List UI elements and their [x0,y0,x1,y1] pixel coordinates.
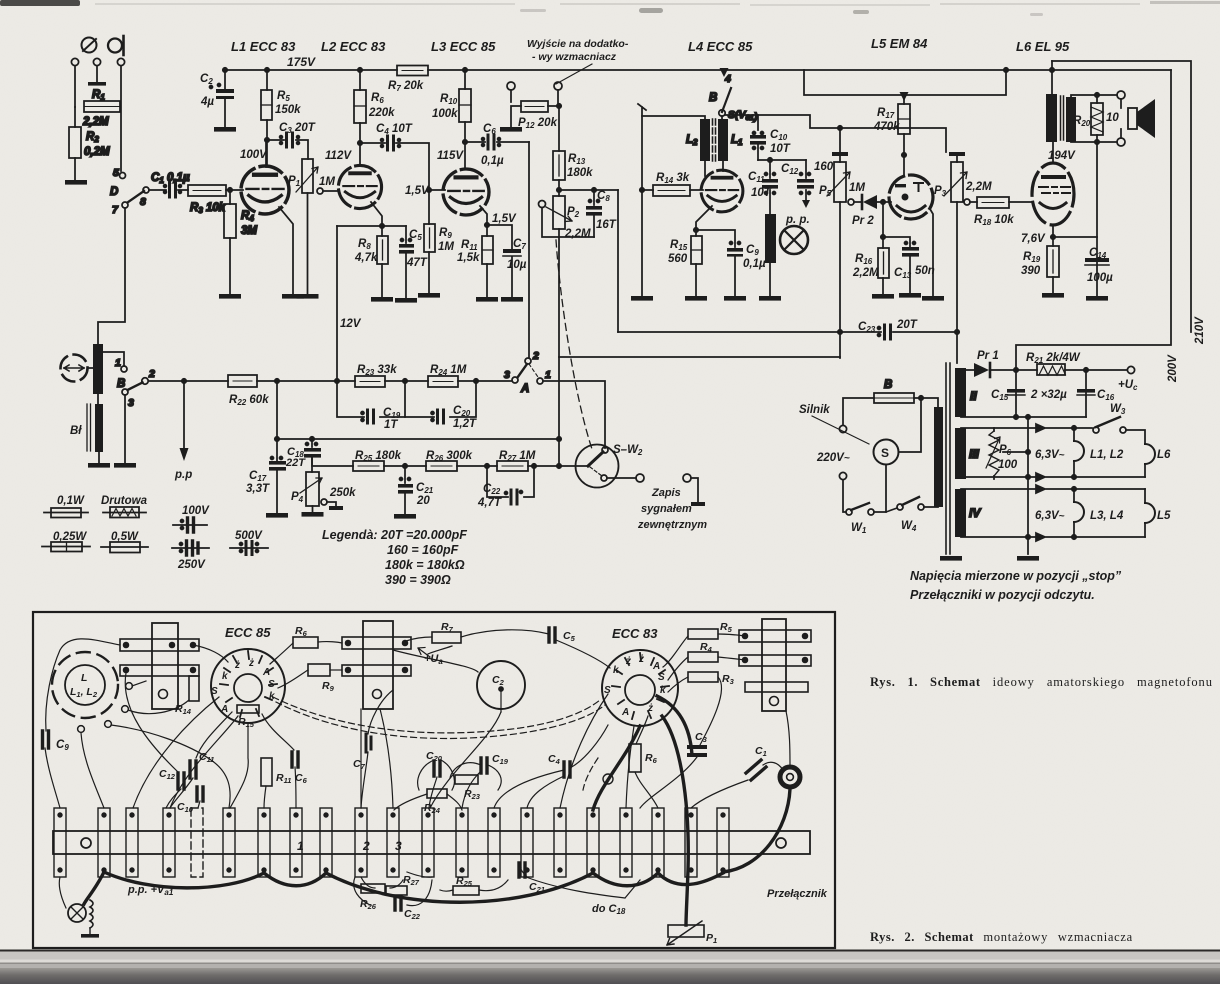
output transformer secondary [1066,97,1076,142]
Rys2 board frame [33,612,835,948]
node p.p tap [182,379,186,383]
wire contact8 to C1 [149,189,166,191]
resistor R24 (layout) [427,789,447,798]
svg-text:160 = 160pF: 160 = 160pF [387,543,459,557]
resistor R6 220k [358,68,362,72]
node L1 grid [228,188,232,192]
wire C7 top to socket [368,690,393,734]
svg-text:L3, L4: L3, L4 [1090,510,1124,522]
wire head circle to strip A lower [132,681,146,686]
svg-text:L6: L6 [1157,449,1171,461]
capacitor C18 22T [310,437,314,441]
wire R1 left to R2 [74,107,76,127]
potentiometer P2 2,2M [553,196,565,229]
ground line of head circuit [638,104,646,296]
output transformer core [1061,96,1064,140]
capacitor C4 (layout) [564,762,570,777]
switch A contact 2 [525,358,531,364]
tube socket ECC85 [211,649,285,723]
ground under R11 [476,297,498,302]
triode L1 [241,166,289,214]
wire L1 anode [265,140,267,167]
diode Pr1 [961,369,974,371]
ground under P4 [302,512,324,517]
svg-text:7,6V: 7,6V [1021,233,1046,245]
diode Pr2 [854,201,862,203]
svg-text:0,1W: 0,1W [57,495,85,507]
svg-text:ECC 85: ECC 85 [225,625,271,640]
terminal Zapis [636,474,644,482]
resistor R4 3M [229,192,231,204]
wire strip A lug to C12 [125,673,178,772]
svg-text:10: 10 [1106,112,1119,124]
resistor R14 (layout) [189,676,199,701]
svg-text:0,1µ: 0,1µ [481,155,504,167]
winding IV [955,489,966,537]
hum pot P6 100 [993,428,995,479]
heater return upper [961,473,1145,481]
svg-text:IV: IV [969,506,981,520]
tube socket ECC83 [602,650,678,726]
svg-text:ż: ż [234,660,240,671]
wire R24 to lug 393/428 [394,794,462,810]
svg-text:20: 20 [416,495,430,507]
Legenda text [322,528,467,587]
capacitor C22 (layout) [395,897,401,910]
wire socket to lug 229 via R11 [230,723,248,808]
input terminal 2 [93,58,100,65]
svg-text:C3 20T: C3 20T [279,122,316,135]
wire R4 to strip C [718,657,745,660]
svg-text:3,3T: 3,3T [246,483,270,495]
L5 heater loop [1144,489,1146,537]
svg-text:L3 ECC 85: L3 ECC 85 [431,39,496,54]
capacitor C7 10u [487,225,512,249]
wire P3 bottom down [956,202,958,332]
svg-text:1M: 1M [849,182,865,194]
output terminal left [507,82,515,90]
svg-text:R7 20k: R7 20k [388,80,424,93]
capacitor C21 20 [404,466,406,483]
svg-text:2,2M: 2,2M [852,267,879,279]
wire C11/C12 to lug 169 [166,778,193,808]
resistor R16 2,2M [882,202,884,248]
wire terminal 709 to R14 [128,700,189,714]
svg-text:R14 3k: R14 3k [656,172,690,185]
wire strip A to socket ECC85 [193,645,228,662]
resistor R20 10 [1096,95,1098,142]
wire bus y356 [559,357,840,466]
wire strip B lug down to lug 361 [360,709,362,808]
ground under R2 [65,180,87,185]
svg-text:II: II [970,389,977,403]
grommet [780,767,800,787]
capacitor C20 1,2T [405,381,476,417]
resistor R4 (layout) [688,652,718,662]
ground under EM84 [922,296,944,301]
indicator lamp [780,226,808,254]
wire strip B top to C2 [393,650,478,672]
wire socket k to C6 [262,714,294,750]
svg-text:8: 8 [140,196,146,208]
svg-text:P12 20k: P12 20k [518,117,558,130]
switch B contact 1 [121,366,127,372]
wire R25 arcs [440,880,508,891]
svg-text:250V: 250V [177,559,206,571]
wire terminal1 down [74,66,76,107]
erase head coil [765,214,776,263]
switch D contact 5 [120,173,126,179]
svg-text:180k = 180kΩ: 180k = 180kΩ [385,558,465,572]
wire C4 to ECC83 [570,725,608,768]
svg-text:560: 560 [668,253,688,265]
svg-text:ż: ż [647,703,653,714]
contact S(Vo1) [719,110,725,116]
wire R2 to ground [74,158,76,180]
mains transformer core [946,363,950,554]
node C17/C18 bus [275,437,279,441]
ground under switch B [114,463,136,468]
ground under head [88,463,110,468]
wire R11 to lug 264 [264,786,266,808]
wire R26/R27/C22 arcs [354,872,432,906]
svg-text:4µ: 4µ [200,96,214,108]
svg-text:2,2M: 2,2M [965,181,992,193]
tag strip B [363,621,393,709]
wire C20 arc to R24 [418,760,455,790]
svg-text:4: 4 [724,73,731,85]
switch W3 [1093,427,1099,433]
svg-text:A: A [652,661,660,672]
wire L2 cathode [371,202,382,226]
ground under P12 [500,127,522,132]
resistor R1 [84,101,120,112]
svg-text:4,7T: 4,7T [477,497,502,509]
output terminal right [554,82,562,90]
PSU note text [910,569,1122,602]
capacitor C12 (layout) [178,773,184,789]
svg-text:180k: 180k [567,167,593,179]
wire playback bus to P5/P3 [758,115,946,152]
potentiometer P1 (layout) [668,925,704,937]
wire socket A to R6 [270,643,293,664]
wire C3 down to lug 626 [640,757,697,808]
capacitor C14 100u [1053,236,1097,238]
terminal strip bus bar [53,831,810,854]
legend 250V capacitor [172,547,209,549]
svg-text:150k: 150k [275,104,301,116]
svg-text:3: 3 [395,839,402,853]
wire R23-R24 [385,380,428,382]
capacitor C5 (layout) [549,628,555,642]
resistor R21 2k/4W [1037,364,1065,375]
wire strip C to grommet [786,711,790,766]
wire C10 to lug 197 [198,801,200,808]
resistor R14 3k [640,188,644,192]
head coil mount [52,652,118,718]
wire C1 down to lug 691 [691,780,748,808]
svg-text:R18 10k: R18 10k [974,214,1014,227]
wire R9 to socket [278,670,308,688]
wire bus y439 [277,438,559,440]
ground under C7 [501,297,523,302]
leader line to output note [556,64,592,84]
page bottom gutter band [0,950,1220,984]
svg-text:100: 100 [998,459,1018,471]
resistor R11 (layout) [261,758,272,786]
arrow C12 to lamp [805,190,807,200]
ground under R16 [872,294,894,299]
head core dashes [713,119,716,161]
potentiometer P1 1M [302,159,313,193]
capacitor C6 (layout) [292,752,298,767]
wire P1 wiper to L2 grid [323,190,339,192]
svg-text:R25 180k: R25 180k [355,450,402,463]
motor S [874,440,899,465]
resistor R24 1M [428,376,458,387]
capacitor C7 (layout) [366,734,371,752]
resistor R7 (layout) [432,632,461,643]
svg-text:k: k [613,665,619,676]
dashed mechanical link P2 to S-W2 [556,240,593,452]
node L2 anode 112V [358,141,362,145]
svg-text:A: A [621,707,629,718]
resistor R8 (layout) [629,744,641,772]
wire R7 to +Ua [428,646,452,654]
terminal mains upper [839,425,846,432]
switch B contact 3 [122,389,128,395]
resistor R9 1M [428,190,430,224]
switch D contact 7 [122,202,128,208]
svg-text:1T: 1T [384,419,398,431]
thick hookup wires [84,696,790,925]
resistor R15 (layout) [237,705,259,713]
heater line 6,3V lower [961,485,1145,493]
capacitor C3 (layout) [687,745,707,749]
svg-text:220k: 220k [368,107,395,119]
terminal +Uc [1127,366,1134,373]
wire R22 to tone stack [257,380,355,382]
svg-text:S: S [268,679,275,690]
pickup symbol [61,355,88,382]
svg-text:Zapis: Zapis [651,487,681,499]
heater return lower [961,533,1145,541]
node C17 branch [275,379,279,383]
svg-text:100µ: 100µ [1087,272,1113,284]
resistor R27 (layout) [386,886,407,895]
wire L2 top to ground line [642,116,705,119]
resistor R9 (layout) [308,664,330,676]
svg-text:1: 1 [297,839,304,853]
ground under R15 [685,296,707,301]
wire strip B to R7 [406,637,432,641]
resistor R7 20k in rail [397,66,428,76]
ground under P1 [297,294,319,299]
svg-text:L2 ECC 83: L2 ECC 83 [321,39,386,54]
switch B contact 2 [142,378,148,384]
wire ECC83 S pin to lug 560 [560,694,608,808]
capacitor C8 16T [592,188,596,192]
primary winding I [934,407,943,507]
svg-text:zewnętrznym: zewnętrznym [637,519,707,531]
svg-text:p. p.: p. p. [785,214,810,226]
wire R4 to ground [229,238,231,294]
small terminals [78,726,85,733]
winding II [955,368,966,417]
node P12/R13 [557,104,561,108]
svg-text:115V: 115V [437,150,464,162]
svg-text:100k: 100k [432,108,458,120]
pentode L6 EL95 [1032,163,1074,225]
resistor P12 20k [521,101,548,112]
node cathode/C9 [694,228,698,232]
wire ECC83 bottom to lug 626 [626,726,634,808]
ground under R9 [418,293,440,298]
resistor R25 (layout) [453,886,479,895]
capacitor C13 50n [883,237,910,247]
centre ground line [1027,417,1029,554]
wire terminal3 down to switch D [120,66,122,171]
svg-text:Drutowa: Drutowa [101,495,148,507]
switch A arm [518,364,528,378]
svg-text:100V: 100V [240,149,268,161]
wire R3 to L1 grid [226,189,243,191]
svg-text:3M: 3M [241,225,257,237]
svg-text:10µ: 10µ [507,259,527,271]
L6 heater loop [1145,444,1155,464]
svg-text:L4 ECC 85: L4 ECC 85 [688,39,753,54]
resistor R15 560 [691,236,702,264]
resistor R11 1,5k [482,236,493,264]
capacitor C5 47T [405,226,407,243]
wire cathode bus [337,225,406,227]
ground under C5 [395,298,417,303]
resistor R5 (layout) [688,629,718,639]
wire ECC83 to R4 [668,657,688,680]
wire motor top to fuse [899,400,922,452]
capacitor C10 (layout) [197,787,203,801]
speaker [1128,108,1137,129]
node rail feed L4 [720,68,729,77]
svg-text:470k: 470k [873,121,900,133]
svg-text:50n: 50n [915,265,935,277]
svg-text:Napięcia mierzone w pozycji „s: Napięcia mierzone w pozycji „stop” [910,569,1122,583]
switch A contact 1 [537,378,543,384]
wire contact3 to ground [124,395,126,463]
svg-text:16T: 16T [596,219,617,231]
capacitor C22 4,7T [487,466,534,497]
svg-text:220V~: 220V~ [816,452,850,464]
capacitor C15 [1015,370,1017,417]
capacitor C11 (layout) [190,761,196,778]
svg-text:C4 10T: C4 10T [376,123,413,136]
wire lug527 bottom to C21 [521,868,527,877]
ground under R8 [371,297,393,302]
svg-text:B: B [709,92,717,104]
capacitor C21 (layout) [519,863,525,877]
resistor R13 180k [558,106,560,151]
HT supply rail 175V [225,69,1171,71]
svg-text:S: S [211,686,218,697]
triode L2 [338,165,381,208]
svg-text:1: 1 [115,357,121,369]
wire L2 bottom to grid [704,161,706,176]
wire ECC83 to R3 [668,677,688,692]
head winding L1 [721,116,723,119]
svg-text:500V: 500V [235,530,263,542]
solder lugs on strip [54,808,729,877]
svg-text:L5: L5 [1157,510,1171,522]
svg-text:B: B [884,379,892,391]
wire strip B to lug 393 [380,709,393,808]
node L1 anode 100V [265,138,269,142]
svg-text:sygnałem: sygnałem [641,503,692,515]
switch B arm [128,383,143,391]
wire head to ground [98,452,100,463]
node L3 anode 115V [463,140,467,144]
record head coil lower [95,404,103,452]
svg-text:2: 2 [532,350,539,362]
resistor R2 [69,127,81,158]
svg-text:Rys. 2. Schemat montażowy wzma: Rys. 2. Schemat montażowy wzmacniacza [870,930,1133,944]
wire lamp to lug 60 [59,877,66,908]
wire ECC83 k to R8 [636,716,648,744]
svg-text:R3 10k: R3 10k [190,202,226,215]
capacitor C20 (layout) [434,761,440,776]
resistor R10 100k [463,68,467,72]
wire 12V line [336,226,338,381]
capacitor C10 10T [753,132,756,135]
wire S-W2 to Zapis terminal [607,477,636,479]
svg-text:III: III [969,447,980,461]
wire contact 1 to S-W2 [543,381,605,448]
wire EL95 cathode 7,6V [1052,225,1054,246]
svg-text:L: L [81,672,87,684]
wire C6 down to lug 296 [295,767,296,808]
capacitor C12 160 [805,160,807,178]
capacitor C16 [1085,370,1087,417]
resistor R25 180k [312,458,353,466]
resistor R23 (layout) [455,775,478,784]
ground under C17 [266,513,288,518]
wire terminal2 down to shield bar [96,66,98,82]
200V line [1016,70,1171,370]
wire P1 bottom to ground [307,193,309,294]
svg-text:A: A [520,383,529,395]
svg-text:R22 60k: R22 60k [229,394,269,407]
resistor R26 300k [426,461,457,471]
svg-text:Bł: Bł [70,425,82,437]
winding III [955,428,966,479]
node L2 cathode [380,224,384,228]
svg-text:6,3V~: 6,3V~ [1035,510,1065,522]
svg-text:2,2M: 2,2M [564,228,591,240]
wire R3 to C3 [700,677,722,745]
P3 top bar [949,152,965,156]
wire C19 arc to R23 [450,763,501,790]
switch A contact 3 [512,377,518,383]
dashed wire bundle [273,697,605,790]
triode L4 [701,170,743,212]
svg-text:3: 3 [128,397,134,409]
svg-text:1M: 1M [438,241,454,253]
wire R8 to lug 658 [635,772,658,808]
svg-text:R26 300k: R26 300k [426,450,473,463]
svg-text:22T: 22T [285,457,306,469]
ground under C13 [899,293,921,298]
wire socket left pin to lug 132 [133,697,219,808]
wire C6 down to contact 2 [528,142,530,358]
